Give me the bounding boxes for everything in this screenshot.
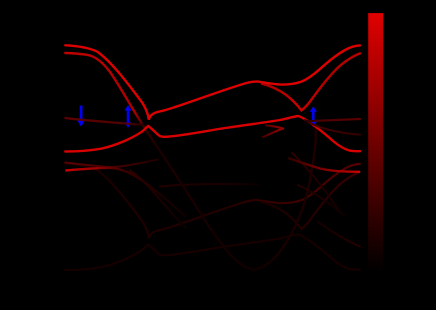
dark steep line L3 [130, 171, 186, 229]
dark line R4 to lower right [318, 222, 360, 247]
replica band rP1 (P1 shifted down by drive frequency) [65, 164, 360, 270]
small anticrossing vertex K left of AC2 [263, 125, 283, 137]
dark steep line R2 [292, 153, 341, 213]
faint bare line D1 (left) [65, 118, 143, 125]
dark line R3 [298, 185, 344, 215]
replica band rP4 [262, 172, 360, 229]
band P1: upper hybridized band, W-shaped [65, 45, 360, 120]
colorbar [368, 13, 383, 272]
dark flat line L4 [160, 184, 258, 186]
arrow A1 (blue down arrow) [77, 106, 86, 127]
faint bare line D2 (right) [306, 119, 360, 121]
arrow A3 (blue double arrow) [310, 106, 317, 127]
replica band rP3 [65, 235, 360, 271]
explicit faint line F1 (left, y~170) [65, 168, 186, 217]
band P4: second band diving into AC2 then rising to top right [262, 53, 360, 110]
band P3: middle band with avoided-crossing bumps [65, 116, 360, 152]
faint bare line D2b (descending after AC2) [305, 120, 360, 135]
band P2: second band, bright at edges, faint U through the bottom [65, 53, 252, 270]
dark line L1 dipping then rising [65, 160, 158, 168]
arrow A2 (blue double arrow) [124, 105, 131, 128]
bright core bands [65, 45, 360, 151]
faint left-bottom lines [65, 160, 258, 229]
faint right-bottom lines [292, 153, 360, 247]
explicit faint line F2 (right, y~171.5) [288, 158, 360, 172]
